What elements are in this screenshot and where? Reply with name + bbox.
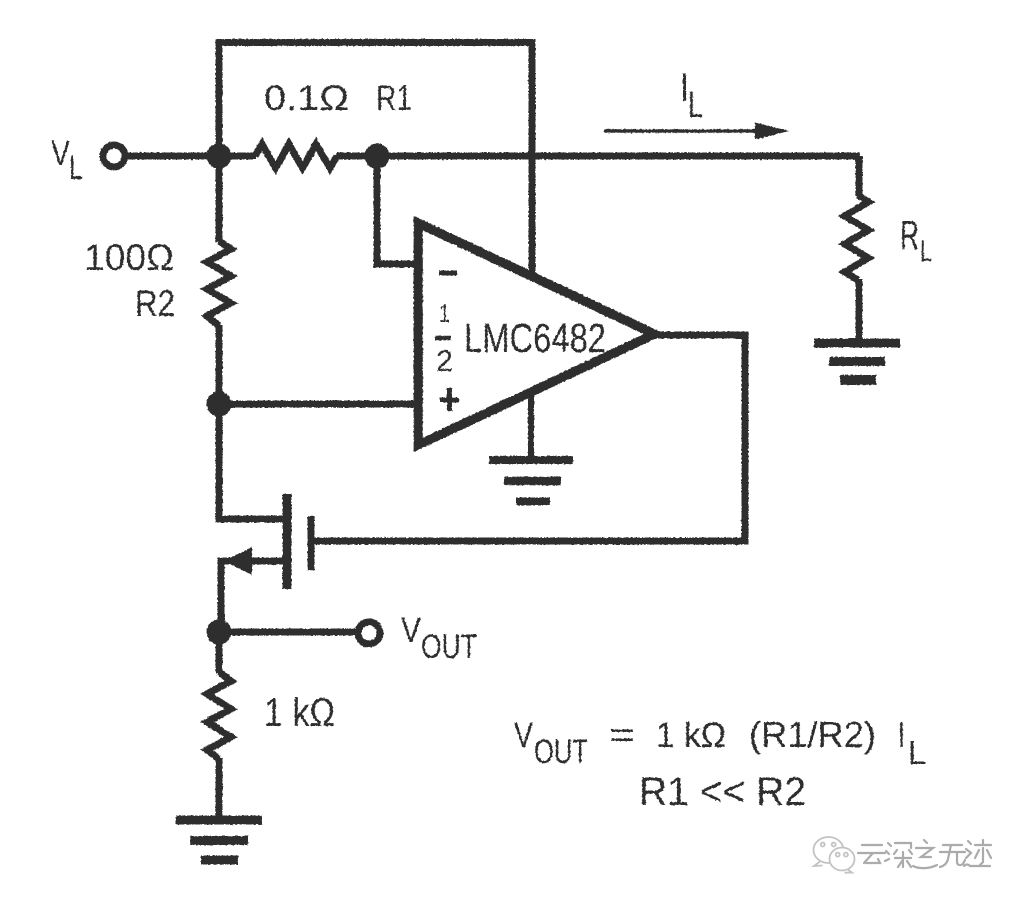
svg-text:1 kΩ: 1 kΩ bbox=[656, 716, 726, 755]
svg-text:I: I bbox=[898, 714, 905, 755]
svg-text:R: R bbox=[900, 212, 919, 258]
svg-text:R1 << R2: R1 << R2 bbox=[639, 770, 806, 814]
svg-text:L: L bbox=[688, 84, 703, 125]
svg-text:V: V bbox=[514, 716, 534, 755]
svg-text:(R1/R2): (R1/R2) bbox=[749, 714, 876, 755]
svg-text:2: 2 bbox=[436, 345, 453, 378]
svg-text:0.1Ω: 0.1Ω bbox=[264, 79, 349, 118]
svg-text:1: 1 bbox=[439, 300, 450, 328]
svg-text:V: V bbox=[51, 134, 71, 173]
svg-text:OUT: OUT bbox=[421, 628, 477, 666]
svg-text:R1: R1 bbox=[376, 79, 412, 118]
svg-text:V: V bbox=[401, 611, 422, 650]
svg-text:OUT: OUT bbox=[534, 733, 588, 771]
svg-text:100Ω: 100Ω bbox=[84, 237, 174, 278]
svg-text:1 kΩ: 1 kΩ bbox=[264, 691, 335, 735]
svg-text:LMC6482: LMC6482 bbox=[464, 315, 606, 361]
svg-text:L: L bbox=[908, 734, 926, 771]
svg-text:=: = bbox=[609, 714, 635, 755]
svg-text:L: L bbox=[920, 236, 932, 268]
svg-text:L: L bbox=[69, 149, 83, 187]
svg-text:R2: R2 bbox=[135, 283, 175, 324]
